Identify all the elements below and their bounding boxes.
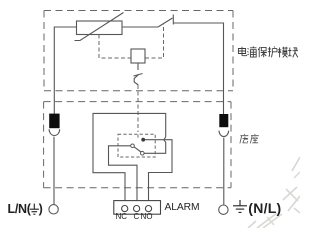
terminal circle N/L <box>219 205 228 214</box>
wire: switch to right conductor, down to right plug contact <box>173 23 223 114</box>
module enclosure (dashed box, surge protection module) <box>44 11 233 91</box>
left plug contact (blade) <box>49 114 59 129</box>
alarm relay NO path wire <box>143 140 172 201</box>
涌 <box>247 47 256 58</box>
svg-text:): ) <box>39 202 43 216</box>
breakaway link below square <box>134 63 143 85</box>
label 底座 (hand-drawn strokes) <box>240 134 259 143</box>
wire: left conductor from varistor to plug contact <box>54 27 76 114</box>
terminal C circle <box>134 206 140 212</box>
svg-text:NC: NC <box>116 212 128 221</box>
alarm relay NC path wire (big outline) <box>93 113 166 200</box>
label 电涌保护模块 (hand-drawn strokes) <box>238 47 298 58</box>
varistor (MOV) <box>75 13 124 41</box>
svg-text:ALARM: ALARM <box>165 202 200 213</box>
svg-text:(N/L): (N/L) <box>248 200 281 216</box>
label NC C NO <box>116 212 153 221</box>
earth symbol inside parens <box>30 204 39 215</box>
linkage dashed down to alarm contact <box>137 85 139 132</box>
watermark <box>248 157 300 228</box>
terminal circle L/N <box>49 205 58 214</box>
indicator square <box>131 49 145 63</box>
right plug contact (blade) <box>219 114 228 127</box>
wire: right cup to N/L terminal <box>223 138 225 205</box>
alarm terminal block <box>114 201 161 215</box>
label (N/L) <box>248 200 281 216</box>
label L/N(pe) <box>8 202 43 216</box>
wire: varistor to disconnect switch <box>122 26 158 28</box>
linkage dashed: square to switch blade <box>145 24 164 58</box>
svg-text:L/N(: L/N( <box>8 202 32 216</box>
relay pivot contact <box>131 144 135 148</box>
linkage dashed: varistor to indicator square <box>99 35 131 59</box>
terminal NC circle <box>122 206 128 212</box>
left socket cup <box>49 129 60 135</box>
terminal NO circle <box>145 206 151 212</box>
svg-text:NO: NO <box>141 212 153 221</box>
relay NO contact dot <box>141 138 145 142</box>
base enclosure (dashed box, socket base) <box>44 102 231 188</box>
relay NC contact <box>141 151 145 155</box>
块 <box>288 48 298 58</box>
relay blade <box>134 147 141 152</box>
alarm relay C path wire <box>109 146 138 201</box>
svg-text:C: C <box>134 212 140 221</box>
thermal disconnect switch blade <box>158 15 173 28</box>
座 <box>250 134 258 143</box>
护 <box>268 47 277 58</box>
保 <box>258 47 267 57</box>
模 <box>278 47 288 58</box>
right socket cup <box>219 131 229 137</box>
relay dashed boundary box <box>118 134 155 157</box>
底 <box>240 134 248 143</box>
earth symbol right <box>233 200 247 212</box>
wire: left cup to L/N terminal <box>53 137 55 205</box>
电 <box>238 47 246 56</box>
